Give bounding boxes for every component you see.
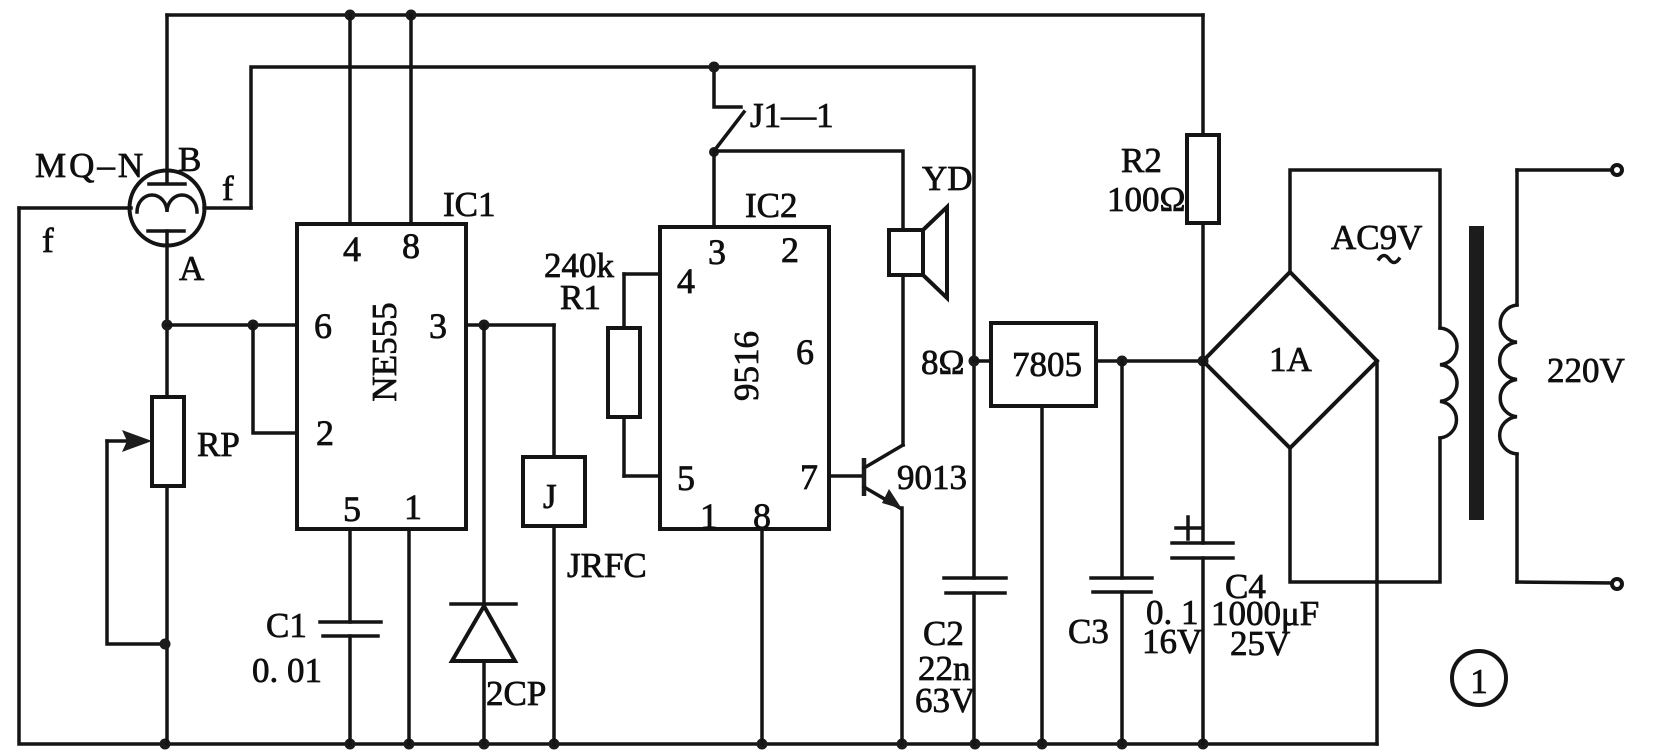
wire pin3 node to 2CP cathode (482, 325, 486, 604)
svg-text:0. 01: 0. 01 (252, 651, 322, 690)
svg-text:AC9V: AC9V (1331, 218, 1422, 257)
svg-text:25V: 25V (1230, 624, 1290, 663)
svg-text:2: 2 (316, 413, 334, 453)
svg-text:3: 3 (429, 306, 447, 346)
svg-text:C3: C3 (1068, 612, 1109, 651)
svg-text:220V: 220V (1547, 351, 1625, 390)
wire RP wiper feedback loop (107, 441, 165, 644)
wire R1 top to IC2 pin4 (624, 272, 660, 276)
terminal top 220V (1612, 165, 1622, 175)
resistor R1 (608, 274, 640, 476)
svg-text:63V: 63V (915, 681, 975, 720)
capacitor C4 electrolytic (1172, 517, 1233, 744)
node relay J on ground bus (549, 739, 560, 750)
node C3 tap junction (1117, 356, 1128, 367)
transformer core (1469, 226, 1484, 520)
node IC1 pin1 on ground bus (404, 739, 415, 750)
svg-text:RP: RP (197, 425, 240, 464)
node bridge left vertex junction (1198, 356, 1209, 367)
svg-text:16V: 16V (1142, 622, 1202, 661)
wire bridge AC bottom to primary (1290, 438, 1440, 582)
wire bridge AC top to primary (1290, 170, 1440, 328)
wiper arrow of RP (107, 430, 152, 452)
wire IC1 pin3 output (466, 323, 554, 327)
svg-text:NE555: NE555 (365, 302, 404, 401)
capacitor C1 (320, 622, 381, 744)
resistor R2 (1187, 15, 1219, 361)
relay J coil box (523, 457, 585, 744)
transformer T secondary winding (1500, 170, 1517, 582)
node 7805 ground on ground bus (1037, 739, 1048, 750)
node IC2 pin8 on ground bus (757, 739, 768, 750)
figure number 1 circled (1452, 651, 1506, 705)
wire sensor A to IC1 pin6 (167, 323, 297, 327)
node C1 on ground bus (345, 739, 356, 750)
svg-text:6: 6 (796, 332, 814, 372)
node pin6/pin2 tie junction (248, 320, 259, 331)
node C3 on ground bus (1117, 739, 1128, 750)
wire IC1 pin8 to top bus (409, 15, 413, 224)
svg-text:R1: R1 (560, 278, 601, 317)
svg-text:1: 1 (1470, 662, 1488, 701)
gas sensor MQ-N (19, 15, 251, 397)
node 8ohm junction to 7805 (969, 356, 980, 367)
op-amp IC1 NE555 body (297, 224, 466, 529)
switch J1-1 contact (714, 67, 744, 151)
svg-text:1: 1 (700, 496, 718, 536)
svg-text:3: 3 (708, 232, 726, 272)
svg-text:IC2: IC2 (745, 186, 798, 225)
speaker YD (889, 207, 947, 298)
svg-text:6: 6 (314, 306, 332, 346)
svg-text:MQ–N: MQ–N (35, 146, 146, 185)
svg-text:C2: C2 (923, 614, 964, 653)
wire 7805 ground lead (1040, 406, 1044, 744)
node J1-1 on second bus (709, 62, 720, 73)
node pin3 / 2CP junction (479, 320, 490, 331)
wire bridge DC minus down to ground bus (1375, 361, 1379, 744)
svg-text:JRFC: JRFC (567, 546, 647, 585)
terminal bottom 220V (1612, 579, 1622, 589)
svg-text:5: 5 (677, 458, 695, 498)
node RP feedback junction (160, 639, 171, 650)
svg-text:f: f (222, 169, 234, 208)
capacitor C2 (944, 578, 1006, 744)
svg-text:5: 5 (343, 489, 361, 529)
svg-text:A: A (179, 249, 205, 288)
svg-text:C1: C1 (266, 606, 307, 645)
wire pin6 to pin2 tie (253, 325, 297, 433)
wire top supply bus (167, 13, 1203, 17)
potentiometer RP (152, 397, 184, 744)
wire IC1 pin4 to top bus (348, 15, 352, 224)
svg-text:100Ω: 100Ω (1107, 180, 1186, 219)
svg-text:2: 2 (781, 230, 799, 270)
wire bottom ground bus (19, 208, 1377, 744)
wire second bus (f terminal to C2 column) (251, 67, 974, 578)
svg-text:J: J (543, 477, 557, 516)
wire J1-1 pole to IC2 pin3 (712, 152, 716, 227)
svg-text:B: B (178, 140, 201, 179)
wire R1 bottom to IC2 pin5 (624, 474, 660, 478)
wire bridge node down to C4 (1201, 361, 1205, 543)
node 9013 emitter on ground bus (897, 739, 908, 750)
svg-text:2CP: 2CP (486, 674, 546, 713)
svg-text:R2: R2 (1121, 141, 1162, 180)
node 2CP on ground bus (479, 739, 490, 750)
svg-text:9516: 9516 (727, 331, 766, 401)
node top bus / IC1 pin8 junction (406, 10, 417, 21)
wire IC1 pin1 to ground bus (407, 529, 411, 744)
svg-text:8Ω: 8Ω (921, 343, 965, 382)
node C4 on ground bus (1198, 739, 1209, 750)
wire secondary bottom to terminal (1517, 582, 1612, 583)
node C2 on ground bus (970, 739, 981, 750)
svg-text:J1—1: J1—1 (750, 96, 834, 135)
wire pin3 to relay J (552, 325, 556, 457)
node RP bottom on ground bus (160, 739, 171, 750)
diode 2CP (451, 604, 516, 744)
regulator U3 7805 (991, 323, 1096, 406)
svg-text:4: 4 (677, 261, 695, 301)
node top bus / IC1 pin4 junction (345, 10, 356, 21)
wire secondary top to terminal (1517, 168, 1612, 172)
IC U2 9516 body (660, 227, 829, 529)
svg-text:f: f (42, 221, 54, 260)
svg-text:IC1: IC1 (443, 185, 496, 224)
wire J1-1 pole to speaker YD (714, 151, 903, 230)
svg-text:7: 7 (800, 457, 818, 497)
svg-text:8: 8 (402, 226, 420, 266)
svg-text:4: 4 (343, 229, 361, 269)
transformer T primary winding (1440, 328, 1457, 438)
wire IC2 pin7 to 9013 base (829, 474, 862, 478)
tilde under 9 (1379, 256, 1399, 263)
svg-text:YD: YD (922, 159, 973, 198)
bridge rectifier 1A diamond (1203, 272, 1377, 448)
node sensor A / pin6 junction (162, 320, 173, 331)
wire IC2 pin8 to ground bus (760, 529, 764, 744)
capacitor C3 (1091, 361, 1152, 744)
svg-text:9013: 9013 (897, 458, 967, 497)
transistor Q 9013 (864, 275, 903, 744)
wire IC1 pin5 to C1 (348, 529, 352, 622)
svg-text:1A: 1A (1269, 340, 1313, 379)
svg-text:1: 1 (404, 487, 422, 527)
svg-text:7805: 7805 (1012, 345, 1082, 384)
wire 8ohm node to 7805 input (974, 359, 991, 363)
wire 7805 output to bridge node (1096, 359, 1203, 363)
node J1-1 pole junction (709, 147, 719, 157)
